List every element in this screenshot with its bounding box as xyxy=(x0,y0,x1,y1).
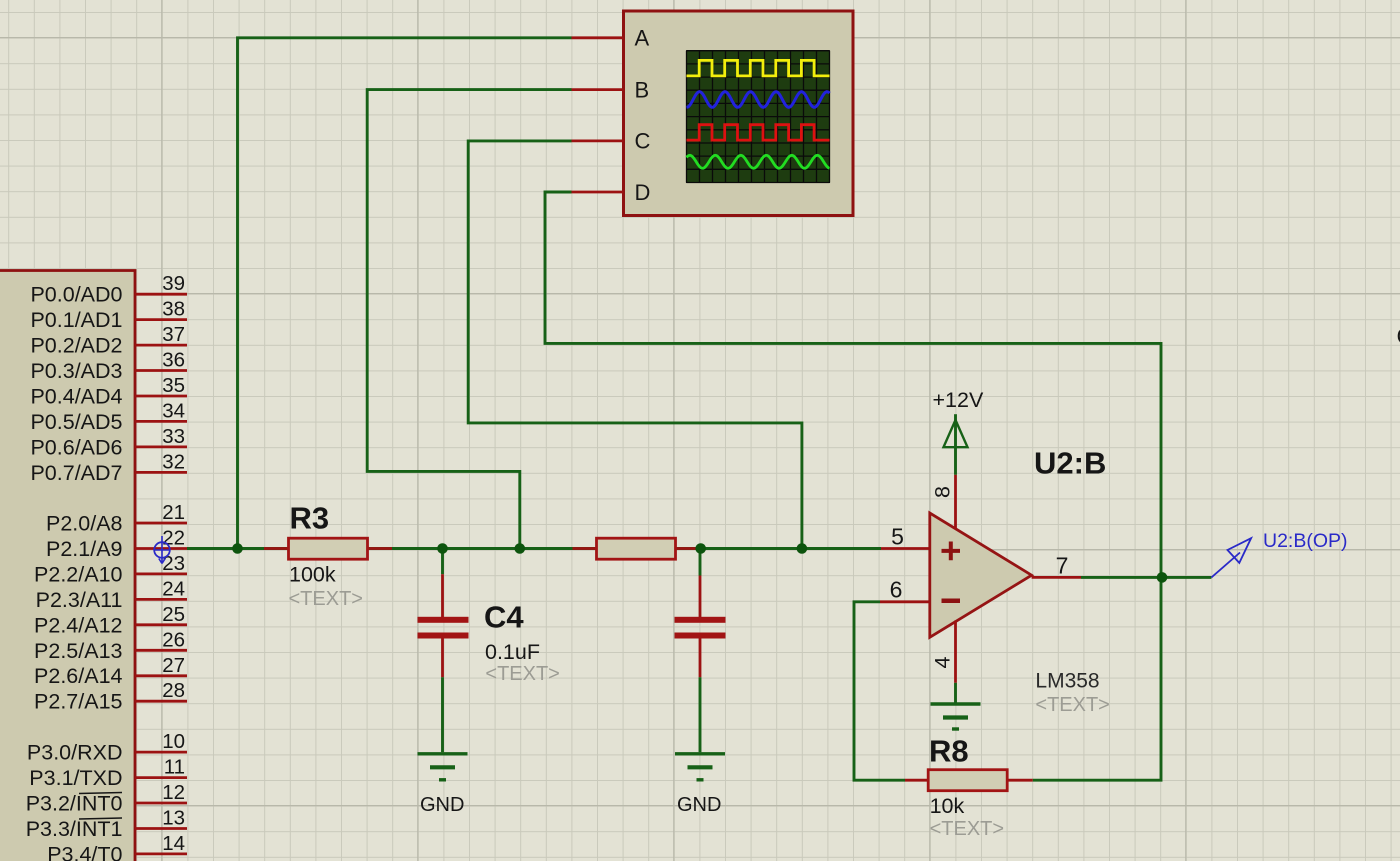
+12V power symbol xyxy=(933,388,984,475)
svg-text:R8: R8 xyxy=(929,734,969,769)
svg-text:14: 14 xyxy=(162,832,185,855)
junction node (442.5,548.5) xyxy=(437,543,448,554)
svg-text:P0.0/AD0: P0.0/AD0 xyxy=(30,283,122,307)
svg-text:27: 27 xyxy=(162,654,185,677)
oscilloscope pin B xyxy=(572,77,650,102)
svg-text:P2.5/A13: P2.5/A13 xyxy=(34,639,122,663)
svg-text:P0.2/AD2: P0.2/AD2 xyxy=(30,334,122,358)
svg-text:34: 34 xyxy=(162,399,185,422)
svg-text:37: 37 xyxy=(162,323,185,346)
junction node (237.5,548.5) xyxy=(232,543,243,554)
svg-text:22: 22 xyxy=(162,527,185,550)
pin P0.3/AD3 (36) xyxy=(30,349,187,384)
svg-text:B: B xyxy=(635,77,650,102)
voltage probe U2:B(OP) xyxy=(1211,530,1347,577)
svg-text:+12V: +12V xyxy=(933,388,984,412)
main horizontal wire P2.1 to op-amp pin5 xyxy=(187,547,881,550)
op-amp pin 6 stub xyxy=(880,577,930,603)
svg-text:8: 8 xyxy=(931,486,955,498)
svg-text:100k: 100k xyxy=(289,563,336,587)
svg-text:P3.1/TXD: P3.1/TXD xyxy=(29,766,122,790)
junction node (801.9,548.5) xyxy=(797,543,808,554)
svg-text:P2.4/A12: P2.4/A12 xyxy=(34,613,122,637)
svg-text:P0.4/AD4: P0.4/AD4 xyxy=(30,385,122,409)
oscilloscope body xyxy=(624,11,854,216)
pin P2.2/A10 (23) xyxy=(34,552,187,587)
wire net A: oscilloscope A to main node xyxy=(238,38,572,549)
svg-text:6: 6 xyxy=(890,577,903,603)
svg-text:23: 23 xyxy=(162,552,185,575)
svg-text:39: 39 xyxy=(162,272,185,295)
ground below C4 xyxy=(418,754,468,816)
pin P0.4/AD4 (35) xyxy=(30,374,187,409)
svg-text:28: 28 xyxy=(162,679,185,702)
svg-text:<TEXT>: <TEXT> xyxy=(1035,694,1109,716)
pin P2.5/A13 (26) xyxy=(34,628,187,663)
junction node (1162,577.4) xyxy=(1157,572,1168,583)
svg-text:LM358: LM358 xyxy=(1035,670,1099,693)
svg-text:<TEXT>: <TEXT> xyxy=(930,818,1004,840)
pin P2.4/A12 (25) xyxy=(34,603,187,638)
svg-text:C: C xyxy=(635,129,651,154)
microcontroller U1 body xyxy=(0,271,135,861)
pin P2.1/A9 (22) xyxy=(46,527,187,562)
pin P0.7/AD7 (32) xyxy=(30,450,187,485)
resistor R3 xyxy=(264,501,392,611)
svg-text:38: 38 xyxy=(162,298,185,321)
oscilloscope pin D xyxy=(572,180,651,205)
svg-text:<TEXT>: <TEXT> xyxy=(289,588,363,610)
svg-text:P2.3/A11: P2.3/A11 xyxy=(36,588,123,612)
svg-text:U2:B(OP): U2:B(OP) xyxy=(1263,530,1348,552)
svg-text:D: D xyxy=(635,180,651,205)
svg-text:12: 12 xyxy=(162,781,185,804)
resistor R5 (second series resistor) xyxy=(573,538,701,559)
oscilloscope pin C xyxy=(572,129,651,154)
svg-text:33: 33 xyxy=(162,425,185,448)
op-amp pin 8 (V+) xyxy=(931,475,956,530)
oscilloscope screen xyxy=(687,51,830,183)
svg-text:P2.7/A15: P2.7/A15 xyxy=(34,690,122,714)
pin P3.3/INT1 (13) xyxy=(26,807,187,842)
svg-text:13: 13 xyxy=(162,807,185,830)
svg-text:P0.5/AD5: P0.5/AD5 xyxy=(30,410,122,434)
svg-text:GND: GND xyxy=(677,794,721,816)
capacitor C5 (second) xyxy=(675,549,726,753)
pin P3.0/RXD (10) xyxy=(27,730,187,765)
svg-text:P3.2/INT0: P3.2/INT0 xyxy=(26,792,123,816)
svg-text:24: 24 xyxy=(162,577,185,600)
pin P0.0/AD0 (39) xyxy=(30,272,187,307)
svg-text:35: 35 xyxy=(162,374,185,397)
svg-text:P2.6/A14: P2.6/A14 xyxy=(34,664,122,688)
svg-text:U2:B: U2:B xyxy=(1034,446,1106,481)
op-amp pin 5 stub xyxy=(881,524,930,550)
svg-text:32: 32 xyxy=(162,450,185,473)
wire op-amp pin6 feedback loop via R8 xyxy=(854,602,905,780)
capacitor C4 xyxy=(418,549,560,753)
wire net D: oscilloscope D to op-amp output node xyxy=(545,192,1161,577)
svg-text:R3: R3 xyxy=(290,501,330,536)
svg-text:P0.7/AD7: P0.7/AD7 xyxy=(30,461,122,485)
resistor R8 xyxy=(905,734,1033,841)
pin P3.1/TXD (11) xyxy=(29,756,187,791)
svg-text:P0.1/AD1: P0.1/AD1 xyxy=(30,308,122,332)
svg-text:C4: C4 xyxy=(484,600,524,635)
svg-text:<TEXT>: <TEXT> xyxy=(485,663,559,685)
wire net B: oscilloscope B to node after R3 xyxy=(367,90,571,549)
svg-text:11: 11 xyxy=(164,756,185,779)
wire op-amp output xyxy=(1081,576,1211,579)
svg-text:A: A xyxy=(635,26,650,51)
svg-text:26: 26 xyxy=(162,628,185,651)
pin P3.4/T0 (14) xyxy=(47,832,187,861)
svg-text:P3.0/RXD: P3.0/RXD xyxy=(27,741,123,765)
pin P0.2/AD2 (37) xyxy=(30,323,187,358)
op-amp pin 7 output stub xyxy=(1032,553,1081,579)
svg-text:P3.4/T0: P3.4/T0 xyxy=(47,842,122,861)
svg-text:21: 21 xyxy=(162,501,185,524)
svg-text:P2.0/A8: P2.0/A8 xyxy=(46,512,123,536)
pin P0.5/AD5 (34) xyxy=(30,399,187,434)
ground below op-amp pin 4 xyxy=(931,683,981,729)
blue origin marker at P2.1 pin xyxy=(154,536,171,564)
svg-text:7: 7 xyxy=(1056,553,1069,579)
pin P2.6/A14 (27) xyxy=(34,654,187,688)
svg-text:GND: GND xyxy=(420,794,464,816)
junction node (700.7,548.5) xyxy=(695,543,706,554)
svg-text:P0.3/AD3: P0.3/AD3 xyxy=(30,359,122,383)
ground below C5 xyxy=(675,754,725,816)
pin P0.1/AD1 (38) xyxy=(30,298,187,333)
svg-text:P2.2/A10: P2.2/A10 xyxy=(34,562,122,586)
oscilloscope pin A xyxy=(572,26,650,51)
junction node (519.8,548.5) xyxy=(515,543,526,554)
svg-text:P2.1/A9: P2.1/A9 xyxy=(46,537,123,561)
svg-text:10k: 10k xyxy=(930,794,965,818)
pin P2.0/A8 (21) xyxy=(46,501,187,536)
pin P0.6/AD6 (33) xyxy=(30,425,187,460)
svg-text:25: 25 xyxy=(162,603,185,626)
svg-text:C: C xyxy=(1397,323,1400,349)
svg-text:P3.3/INT1: P3.3/INT1 xyxy=(26,817,123,841)
op-amp U2:B xyxy=(930,446,1110,717)
pin P2.3/A11 (24) xyxy=(36,577,187,612)
svg-text:4: 4 xyxy=(931,656,955,668)
wire net C: oscilloscope C to node after R5 xyxy=(468,141,802,549)
svg-text:P0.6/AD6: P0.6/AD6 xyxy=(30,435,122,459)
op-amp pin 4 (V-) xyxy=(931,621,956,683)
svg-text:5: 5 xyxy=(891,524,904,550)
pin P3.2/INT0 (12) xyxy=(26,781,187,816)
svg-text:10: 10 xyxy=(162,730,185,753)
pin P2.7/A15 (28) xyxy=(34,679,187,714)
svg-text:0.1uF: 0.1uF xyxy=(485,640,540,664)
svg-text:36: 36 xyxy=(162,349,185,372)
